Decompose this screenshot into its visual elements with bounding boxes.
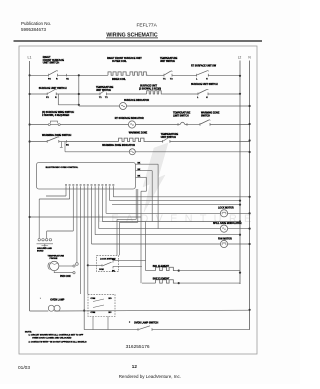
svg-text:TEMPERATURE: TEMPERATURE [96, 86, 114, 89]
svg-text:RT SURFACE UNIT SW: RT SURFACE UNIT SW [191, 65, 217, 68]
svg-text:NOTE:: NOTE: [25, 331, 32, 333]
svg-text:OVEN DOOR CLOSED AND UNLOCKED: OVEN DOOR CLOSED AND UNLOCKED [32, 337, 72, 340]
svg-text:TEMPERATURE: TEMPERATURE [160, 57, 178, 60]
svg-text:PRB CON: PRB CON [60, 276, 71, 278]
svg-text:1. CIRCUIT SHOWN WITH ALL CON: 1. CIRCUIT SHOWN WITH ALL CONTROLS SET T… [29, 334, 84, 337]
svg-text:SURFACE UNIT SWITCH: SURFACE UNIT SWITCH [191, 83, 218, 86]
svg-text:WARMING ZONE INDICATOR: WARMING ZONE INDICATOR [102, 144, 135, 147]
svg-text:ELECTRONIC OVEN CONTROL: ELECTRONIC OVEN CONTROL [46, 167, 79, 169]
svg-text:01/03: 01/03 [18, 365, 30, 371]
svg-text:BOND: BOND [37, 251, 44, 253]
svg-text:OUTER COIL: OUTER COIL [112, 60, 127, 63]
svg-text:(2 SHOWN, 2 REQD): (2 SHOWN, 2 REQD) [139, 89, 161, 91]
svg-text:LOCK MOTOR: LOCK MOTOR [218, 208, 234, 210]
svg-text:L1: L1 [28, 56, 32, 60]
svg-text:TEMPERATURE: TEMPERATURE [48, 254, 65, 257]
svg-text:SURFACE UNIT SWITCH: SURFACE UNIT SWITCH [39, 87, 67, 90]
svg-text:5995384673: 5995384673 [21, 27, 47, 32]
svg-text:SURFACE INDICATOR: SURFACE INDICATOR [124, 99, 149, 102]
svg-text:2. CONTACTS WITH * IS DO NO: 2. CONTACTS WITH * IS DO NOT APPEAR IN A… [29, 341, 88, 344]
svg-text:SPILL SAVE MODULATOR: SPILL SAVE MODULATOR [213, 222, 242, 225]
svg-text:FAN MOTOR: FAN MOTOR [218, 237, 232, 240]
svg-text:TEMPERATURE: TEMPERATURE [161, 133, 179, 136]
svg-text:LIMIT SWITCH: LIMIT SWITCH [173, 115, 189, 117]
svg-text:INNER COIL: INNER COIL [112, 78, 126, 81]
svg-text:OVEN LAMP SWITCH: OVEN LAMP SWITCH [134, 321, 159, 324]
svg-text:L2: L2 [238, 56, 242, 60]
svg-text:WARMING ZONE SWITCH: WARMING ZONE SWITCH [42, 134, 71, 137]
svg-text:Publication No.: Publication No. [21, 21, 51, 26]
svg-text:WARMING ZONE: WARMING ZONE [201, 112, 220, 115]
svg-text:TEMPERATURE: TEMPERATURE [173, 112, 191, 115]
svg-text:Rendered by LeadVenture, Inc.: Rendered by LeadVenture, Inc. [119, 374, 181, 379]
svg-text:2 SHOWN, 4 REQUIRED: 2 SHOWN, 4 REQUIRED [42, 114, 69, 117]
svg-text:NO: NO [109, 298, 112, 300]
svg-text:PROBE: PROBE [50, 258, 58, 260]
svg-text:COM: COM [99, 269, 104, 271]
svg-text:RT SURFACE INDICATOR: RT SURFACE INDICATOR [115, 117, 144, 120]
svg-text:UNIT SWITCH: UNIT SWITCH [160, 61, 175, 63]
svg-text:COM: COM [91, 312, 96, 314]
svg-text:OVEN LAMP: OVEN LAMP [50, 299, 65, 302]
svg-text:SWITCH: SWITCH [201, 115, 210, 117]
svg-text:FEFL77A: FEFL77A [137, 23, 158, 29]
svg-text:WARMING ZONE: WARMING ZONE [129, 132, 148, 135]
svg-text:UNIT SWITCH: UNIT SWITCH [43, 62, 60, 65]
svg-text:COM: COM [91, 298, 96, 300]
svg-text:316255176: 316255176 [126, 344, 150, 350]
svg-text:SURFACE UNIT: SURFACE UNIT [140, 85, 158, 88]
svg-text:GROUND AND: GROUND AND [37, 247, 52, 250]
svg-text:12: 12 [132, 364, 138, 369]
